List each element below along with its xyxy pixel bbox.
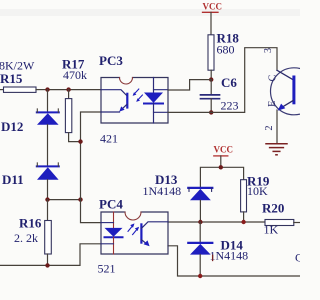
power VCC top	[203, 2, 223, 35]
resistor R15	[0, 59, 48, 93]
svg-text:421: 421	[100, 132, 118, 146]
transistor Q (circle)	[263, 48, 318, 144]
node dot	[66, 87, 70, 91]
node dot	[78, 197, 82, 201]
wire bottom right rail	[168, 246, 300, 276]
resistor R18	[208, 31, 239, 80]
wire	[47, 180, 49, 200]
svg-text:470k: 470k	[63, 68, 87, 82]
node B dot	[209, 110, 213, 114]
wire	[47, 125, 49, 166]
wire node B to collector	[211, 48, 277, 113]
node dot	[45, 263, 49, 267]
node dot	[45, 197, 49, 201]
ground	[266, 144, 287, 155]
svg-text:223: 223	[221, 99, 239, 113]
optocoupler PC4	[98, 197, 169, 276]
wire node B to PC3	[168, 111, 211, 113]
wire	[48, 199, 81, 201]
svg-text:VCC: VCC	[214, 145, 234, 155]
svg-text:D12: D12	[1, 119, 23, 134]
wire	[47, 90, 49, 112]
svg-text:PC3: PC3	[99, 53, 123, 68]
svg-text:C6: C6	[221, 75, 237, 90]
svg-text:3: 3	[263, 48, 274, 53]
resistor R19	[241, 174, 270, 223]
svg-text:VCC: VCC	[203, 2, 223, 12]
svg-text:R20: R20	[262, 201, 284, 216]
wire node A to PC3	[168, 80, 211, 90]
svg-text:2: 2	[264, 126, 275, 131]
optocoupler PC3	[99, 53, 168, 146]
svg-text:10K: 10K	[247, 184, 268, 198]
wire mid rail	[168, 221, 265, 223]
wire PC3 emitter to junction	[81, 112, 102, 200]
svg-text:E: E	[267, 101, 278, 107]
wire main top-left net	[48, 89, 102, 91]
power VCC mid	[214, 145, 234, 168]
svg-text:C: C	[267, 74, 278, 81]
diode D13	[143, 172, 213, 222]
resistor R16	[14, 200, 51, 266]
svg-text:680: 680	[217, 43, 235, 57]
svg-text:R16: R16	[19, 216, 42, 231]
svg-text:C: C	[295, 251, 300, 265]
svg-text:1N4148: 1N4148	[210, 249, 249, 263]
diode D12	[1, 109, 59, 134]
resistor R17	[62, 57, 87, 142]
svg-text:D11: D11	[2, 172, 24, 187]
node dot	[45, 87, 49, 91]
svg-text:1N4148: 1N4148	[143, 184, 182, 198]
node A dot	[209, 77, 213, 81]
wire vcc rail	[200, 167, 243, 187]
node dot	[198, 220, 202, 224]
svg-text:PC4: PC4	[99, 197, 123, 212]
wire left bottom rail	[0, 244, 101, 266]
svg-text:521: 521	[98, 262, 116, 276]
diode D14	[188, 222, 248, 276]
node junction	[78, 139, 82, 143]
svg-text:R15: R15	[0, 71, 23, 86]
svg-text:2. 2k: 2. 2k	[14, 231, 38, 245]
wire dot2 down to PC4	[81, 200, 102, 223]
node dot	[241, 220, 245, 224]
node dot	[198, 274, 202, 278]
resistor R20	[262, 201, 300, 237]
capacitor C6	[201, 75, 239, 113]
node dot	[219, 165, 223, 169]
diode D11	[2, 163, 59, 187]
faint artifact band	[0, 9, 300, 16]
